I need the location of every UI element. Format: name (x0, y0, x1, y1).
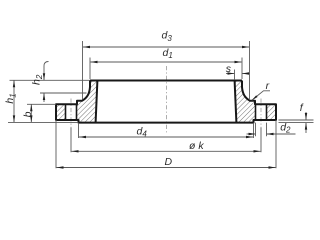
dimension b (27, 104, 56, 122)
svg-text:r: r (266, 80, 270, 92)
dimension h2 (40, 62, 87, 103)
hatch region right hub wall (235, 81, 256, 123)
radius leader r (252, 91, 270, 101)
dimension d4 (79, 123, 254, 138)
bolt hole left edges (65, 104, 67, 120)
hatch region left rim (56, 104, 66, 120)
centerline right bolt (260, 99, 262, 128)
bore wall left (96, 81, 98, 123)
bolt hole right edges (255, 104, 257, 120)
dimension d2 (247, 123, 296, 137)
dimension d3 (83, 41, 250, 100)
centerline main axis (166, 66, 168, 133)
flange outline (56, 81, 276, 123)
hatch region right rim (267, 104, 277, 120)
svg-text:ø k: ø k (189, 140, 204, 152)
svg-text:s: s (226, 63, 232, 75)
bore wall right (235, 81, 237, 123)
svg-text:D: D (165, 156, 173, 168)
dimension f (279, 112, 314, 133)
centerline left bolt (70, 99, 72, 128)
dimension D (56, 120, 276, 168)
dimension h1 (8, 80, 90, 122)
hatch region left hub wall (77, 81, 98, 123)
svg-text:b: b (22, 111, 34, 117)
dimension k (71, 128, 261, 153)
dimension d1 (90, 58, 242, 80)
dimension s (226, 70, 250, 81)
